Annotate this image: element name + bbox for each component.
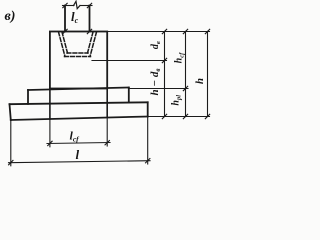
svg-text:h: h xyxy=(194,78,206,84)
svg-text:l: l xyxy=(76,147,80,162)
svg-text:h − dв: h − dв xyxy=(149,69,162,96)
svg-text:в): в) xyxy=(5,9,16,24)
